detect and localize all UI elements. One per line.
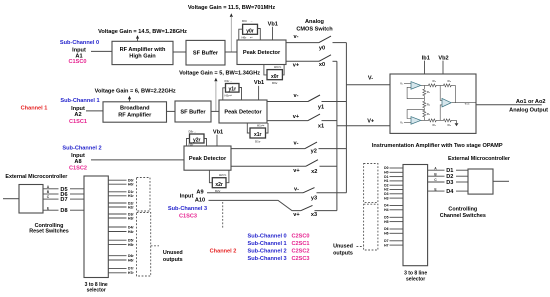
svg-text:x2: x2 <box>311 169 317 175</box>
svg-text:C2SC0: C2SC0 <box>292 234 310 240</box>
svg-text:Channel 2: Channel 2 <box>210 249 237 255</box>
svg-text:Peak Detector: Peak Detector <box>243 50 281 56</box>
svg-text:C1SC1: C1SC1 <box>69 119 87 125</box>
svg-text:v-: v- <box>294 140 299 146</box>
svg-text:v+: v+ <box>293 63 300 69</box>
svg-text:SF Buffer: SF Buffer <box>193 50 219 56</box>
svg-text:H6r: H6r <box>128 258 134 262</box>
svg-text:selector: selector <box>406 276 425 282</box>
svg-text:H6: H6 <box>384 232 388 236</box>
reset switch x1r below peak detector 2 <box>250 128 266 138</box>
svg-text:v+: v+ <box>293 114 300 120</box>
svg-text:x0: x0 <box>319 62 325 68</box>
svg-text:Channel 1: Channel 1 <box>21 106 48 112</box>
svg-text:C2SC2: C2SC2 <box>292 249 310 255</box>
svg-text:x1r: x1r <box>254 132 262 138</box>
wire V- to instrumentation amplifier <box>346 84 390 86</box>
amplifier block Broadband RF Amplifier <box>103 102 167 122</box>
svg-text:Analog: Analog <box>305 19 325 25</box>
svg-text:D1r→: D1r→ <box>225 79 233 83</box>
svg-text:D1v: D1v <box>255 139 261 143</box>
op-amp A3 output stage <box>442 98 451 107</box>
wire V+ bus vertical <box>336 61 338 210</box>
wire R3-R4 node to op-amp A3 inverting input <box>440 85 442 100</box>
microcontroller U1 box left <box>19 185 43 214</box>
wire into microcontroller <box>3 198 19 200</box>
wire analog output <box>477 104 542 106</box>
svg-text:Sub-Channel 0: Sub-Channel 0 <box>248 234 287 240</box>
ground symbol <box>456 120 458 123</box>
svg-text:High Gain: High Gain <box>129 54 156 60</box>
svg-text:v-: v- <box>294 34 299 40</box>
node labels D0-H7 <box>384 166 388 247</box>
wire outputs D0r-H7r of left selector <box>108 180 126 273</box>
svg-text:Instrumentation Amplifier with: Instrumentation Amplifier with Two stage… <box>372 143 503 149</box>
microcontroller U2 box right <box>468 169 493 194</box>
op-amp block instrumentation amplifier box <box>390 74 476 133</box>
buffer block SF Buffer 2 <box>175 101 211 122</box>
svg-text:v+: v+ <box>293 212 300 218</box>
svg-text:v+: v+ <box>293 168 300 174</box>
svg-text:Peak Detector: Peak Detector <box>189 156 227 162</box>
svg-text:Input: Input <box>71 106 85 112</box>
svg-text:Sub-Channel 1: Sub-Channel 1 <box>248 241 287 247</box>
wire R4 to output node <box>454 85 456 102</box>
svg-text:D4r: D4r <box>128 225 134 229</box>
svg-text:Vb2: Vb2 <box>438 55 448 61</box>
wire V+ to instrumentation amplifier <box>337 125 390 127</box>
svg-text:V+: V+ <box>367 119 375 125</box>
svg-text:x1: x1 <box>318 124 324 130</box>
svg-text:Broadband: Broadband <box>120 106 150 112</box>
svg-text:RF Amplifier with: RF Amplifier with <box>120 47 166 53</box>
svg-text:C2SC3: C2SC3 <box>292 256 310 262</box>
svg-text:y1r: y1r <box>229 87 237 93</box>
resistor R4 top right <box>440 84 455 87</box>
dashed bracket used reset signals <box>137 178 151 212</box>
svg-text:Reset Switches: Reset Switches <box>29 229 69 235</box>
resistor R1 top of gain chain <box>423 85 426 96</box>
svg-text:H2r: H2r <box>128 205 134 209</box>
svg-text:y2r: y2r <box>193 137 201 143</box>
svg-text:C1SC3: C1SC3 <box>179 213 197 219</box>
detector block Peak Detector 1 <box>237 40 286 65</box>
wire SF buffer 2 to peak detector 2 <box>211 110 219 112</box>
svg-text:x0r: x0r <box>271 74 279 80</box>
svg-text:x2r: x2r <box>215 182 223 188</box>
svg-text:D7: D7 <box>60 197 67 203</box>
svg-text:H4r: H4r <box>128 230 134 234</box>
decoder block 3 to 8 line selector right <box>403 165 428 266</box>
decoder block 3 to 8 line selector left <box>84 176 108 278</box>
svg-text:outputs: outputs <box>333 250 353 256</box>
wire out of microcontroller right <box>493 180 509 182</box>
svg-text:Voltage Gain = 11.5, BW=701MHz: Voltage Gain = 11.5, BW=701MHz <box>188 5 275 11</box>
svg-text:y1: y1 <box>318 104 324 110</box>
svg-text:External Microcontroller: External Microcontroller <box>5 174 68 180</box>
svg-text:Ib1: Ib1 <box>422 55 430 61</box>
svg-text:A9: A9 <box>196 190 203 196</box>
svg-text:Ao1 or Ao2: Ao1 or Ao2 <box>516 99 546 105</box>
detector block Peak Detector 2 <box>219 100 267 123</box>
svg-text:Vb1: Vb1 <box>268 21 278 27</box>
wire inputs D0-H7 of right selector <box>390 168 404 245</box>
svg-text:Vₒₓₜ: Vₒₓₜ <box>465 102 470 106</box>
svg-text:H2r↪: H2r↪ <box>219 173 227 177</box>
wire op-amp A3 output to box edge <box>452 102 477 104</box>
svg-text:A8: A8 <box>74 159 81 165</box>
svg-text:Peak Detector: Peak Detector <box>224 110 262 116</box>
svg-text:Sub-Channel 1: Sub-Channel 1 <box>60 98 99 104</box>
svg-text:D5r: D5r <box>128 239 134 243</box>
svg-text:Voltage Gain = 6, BW=2.22GHz: Voltage Gain = 6, BW=2.22GHz <box>95 89 176 95</box>
svg-text:C2SC1: C2SC1 <box>292 241 310 247</box>
svg-text:RF Amplifier: RF Amplifier <box>118 112 152 118</box>
svg-text:H0r: H0r <box>128 183 134 187</box>
svg-text:Vb1: Vb1 <box>254 80 264 86</box>
svg-text:Sub-Channel 2: Sub-Channel 2 <box>248 249 287 255</box>
svg-text:H1r: H1r <box>128 194 134 198</box>
svg-text:Sub-Channel 3: Sub-Channel 3 <box>248 256 287 262</box>
svg-text:Sub-Channel 3: Sub-Channel 3 <box>168 206 207 212</box>
wire R2-R5 node to op-amp A3 non-inverting input <box>440 105 442 121</box>
svg-text:x3: x3 <box>311 212 317 218</box>
wire V- bus vertical <box>345 43 347 193</box>
svg-text:CMOS Switch: CMOS Switch <box>296 27 333 33</box>
svg-text:H0r↪: H0r↪ <box>274 65 282 69</box>
dashed bracket unused outputs left <box>137 213 151 277</box>
dashed bracket unused outputs right <box>364 204 378 250</box>
svg-text:Input: Input <box>180 193 194 199</box>
svg-text:selector: selector <box>87 288 106 294</box>
svg-text:D7r: D7r <box>128 267 134 271</box>
amplifier block RF Amplifier with High Gain <box>112 41 173 64</box>
wire input A9 to switch y3 <box>207 192 303 194</box>
svg-text:Vb1: Vb1 <box>213 129 223 135</box>
svg-text:H3r: H3r <box>128 216 134 220</box>
svg-text:D2r→: D2r→ <box>189 130 197 134</box>
svg-text:H4: H4 <box>384 208 388 212</box>
svg-text:Voltage Gain = 14.5, BW=1.28GH: Voltage Gain = 14.5, BW=1.28GHz <box>98 29 187 35</box>
svg-text:H7r: H7r <box>128 271 134 275</box>
svg-text:Channel Switches: Channel Switches <box>440 213 486 219</box>
svg-text:v-: v- <box>294 187 299 193</box>
wire SF buffer 1 to peak detector 1 <box>225 51 237 53</box>
wire input A8 to peak detector 3 <box>91 159 184 161</box>
svg-text:D8: D8 <box>60 208 67 214</box>
node labels D0r-H7r <box>128 179 134 276</box>
resistor R3 top left <box>424 84 440 87</box>
wire input A2 to broadband amplifier <box>86 110 103 112</box>
svg-text:D0v: D0v <box>272 81 278 85</box>
svg-text:A10: A10 <box>195 198 205 204</box>
svg-text:Controlling: Controlling <box>448 206 477 212</box>
reset switch x0r below peak detector 1 <box>267 70 282 80</box>
svg-text:y3: y3 <box>311 196 317 202</box>
svg-text:External Microcontroller: External Microcontroller <box>448 156 511 162</box>
svg-text:D3: D3 <box>446 180 453 186</box>
wire RF amp to SF buffer <box>173 51 186 53</box>
svg-text:v-: v- <box>294 93 299 99</box>
svg-text:Input: Input <box>71 153 85 159</box>
svg-text:y2: y2 <box>311 149 317 155</box>
detector block Peak Detector 3 <box>184 146 231 170</box>
svg-text:→: → <box>250 19 253 23</box>
svg-text:y0r: y0r <box>246 28 254 34</box>
wire op-amp A1 feedback loop <box>407 85 424 98</box>
dashed continuation line below x2r <box>222 202 224 229</box>
reset switch x2r below peak detector 3 <box>212 178 226 188</box>
resistor Rgain middle of chain <box>423 97 426 109</box>
svg-text:outputs: outputs <box>163 257 183 263</box>
wire op-amp A2 feedback loop <box>407 110 424 121</box>
resistor R2 bottom left <box>424 119 440 122</box>
resistor R5 bottom right <box>440 119 456 122</box>
svg-text:H3: H3 <box>384 196 388 200</box>
svg-text:y0: y0 <box>319 45 325 51</box>
wire broadband amp to SF buffer 2 <box>167 110 176 112</box>
wire input A1 to RF amplifier <box>91 50 112 52</box>
svg-text:H7: H7 <box>384 243 388 247</box>
svg-text:H1r↩: H1r↩ <box>225 94 233 98</box>
svg-text:Unused: Unused <box>163 250 183 256</box>
svg-text:H1r↪: H1r↪ <box>257 123 265 127</box>
svg-text:Analog Output: Analog Output <box>509 107 548 113</box>
svg-text:C1SC2: C1SC2 <box>69 165 87 171</box>
wire input A10 to switch x3 <box>209 200 302 210</box>
svg-text:A2: A2 <box>74 112 81 118</box>
svg-text:Sub-Channel 0: Sub-Channel 0 <box>60 40 99 46</box>
svg-text:C1SC0: C1SC0 <box>68 59 86 65</box>
svg-text:Unused: Unused <box>333 244 353 250</box>
svg-text:Voltage Gain = 5, BW=1.34GHz: Voltage Gain = 5, BW=1.34GHz <box>179 71 260 77</box>
svg-text:SF Buffer: SF Buffer <box>180 110 206 116</box>
svg-text:Sub-Channel 2: Sub-Channel 2 <box>62 145 101 151</box>
svg-text:V-: V- <box>368 75 373 81</box>
svg-text:H5: H5 <box>384 220 388 224</box>
svg-text:D4: D4 <box>446 189 454 195</box>
buffer block SF Buffer 1 <box>186 40 225 65</box>
svg-text:H5r: H5r <box>128 243 134 247</box>
dashed bracket used channel signals <box>364 164 378 203</box>
resistor R1 bottom of chain <box>423 108 426 120</box>
